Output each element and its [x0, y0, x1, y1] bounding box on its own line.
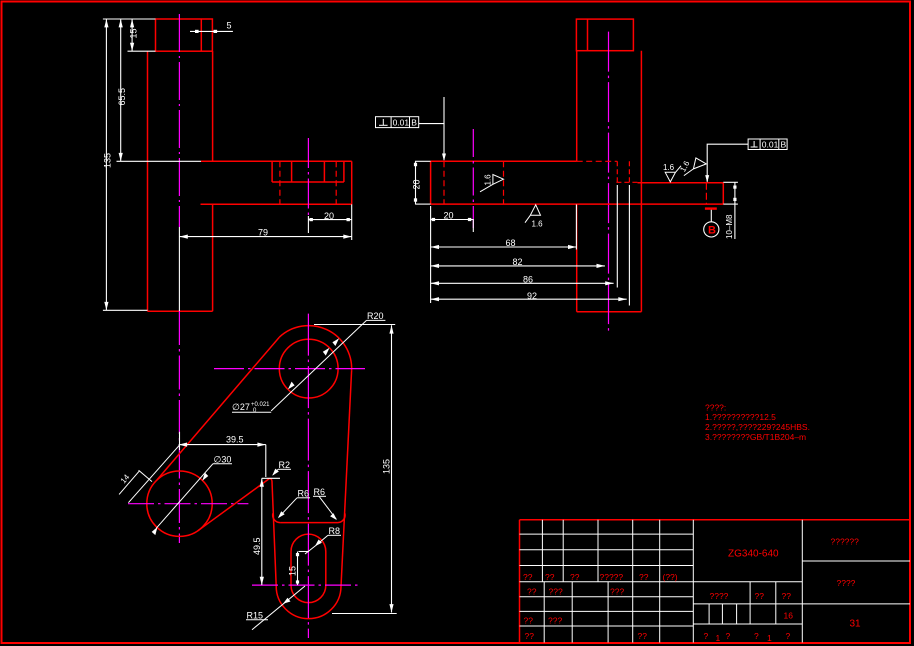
svg-text:5: 5: [227, 21, 232, 31]
svg-text:2.?????,????229?245HBS.: 2.?????,????229?245HBS.: [705, 422, 810, 432]
R8 underline: [328, 534, 341, 536]
R6 right arrow: [330, 513, 337, 520]
title right horizontals: [802, 560, 910, 562]
svg-text:0.01: 0.01: [393, 118, 410, 128]
plate hidden line 1: [443, 161, 445, 204]
dimension 15 (slot): [297, 552, 299, 586]
ext line slot right below: [628, 185, 630, 306]
bottom view vertical centerline: [307, 314, 309, 638]
bottom R15 arc: [276, 586, 341, 619]
svg-text:??: ??: [755, 591, 765, 601]
svg-text:???: ???: [610, 587, 624, 597]
hidden hole line left: [279, 161, 281, 204]
svg-text:B: B: [781, 140, 787, 150]
inner hole circle d27: [279, 339, 338, 398]
dimension 65.5: [120, 19, 122, 161]
dimension 39.5: [179, 444, 266, 446]
svg-text:?: ?: [704, 631, 709, 641]
title grid verticals upper: [541, 520, 543, 582]
ext line cap bottom: [128, 50, 156, 52]
ext line bar top right: [723, 181, 738, 183]
svg-text:3.????????GB/T1B204–m: 3.????????GB/T1B204–m: [705, 432, 806, 442]
ext line slot left below: [616, 185, 618, 288]
svg-text:0.01: 0.01: [762, 140, 779, 150]
front main centerline lower: [178, 311, 180, 543]
side body left edge lower: [576, 204, 578, 312]
surface symbol on bar top: [665, 166, 681, 182]
side cap outline: [576, 19, 633, 51]
svg-text:1: 1: [716, 633, 721, 643]
leader diagonal d27/R20: [271, 320, 366, 411]
title grid horizontals upper: [520, 533, 694, 535]
hole circle d30: [147, 471, 212, 536]
svg-text:?: ?: [786, 631, 791, 641]
arrow d30 lower left: [152, 527, 158, 535]
dimension 5 line: [190, 30, 233, 32]
R15 underline: [246, 619, 268, 621]
R8 arrow: [315, 540, 322, 547]
label R2 underline: [278, 468, 291, 470]
svg-text:ZG340-640: ZG340-640: [728, 549, 779, 560]
svg-text:??????: ??????: [831, 537, 860, 547]
ext line arm right: [351, 204, 353, 240]
svg-text:R6: R6: [314, 487, 326, 497]
svg-text:B: B: [411, 118, 417, 128]
plate bottom edge: [431, 203, 724, 205]
dimension 5 squares: [195, 30, 199, 33]
bar right edge: [722, 183, 724, 204]
svg-text:65.5: 65.5: [117, 88, 127, 106]
dimension 15: [131, 19, 133, 51]
dimension 49.5: [261, 478, 263, 585]
ext line boss centerline: [307, 216, 309, 233]
ext line arm top: [117, 160, 202, 162]
ext line 39.5 left: [179, 432, 181, 450]
right tangent edge: [341, 371, 352, 587]
svg-text:79: 79: [258, 228, 268, 238]
front body bottom edge: [148, 310, 213, 312]
dimension 20 (side vertical): [415, 161, 417, 204]
R15 leader: [252, 586, 305, 630]
svg-text:1: 1: [767, 633, 772, 643]
surface symbol on hidden line (rotated 90): [480, 175, 504, 192]
front arm top edge: [201, 160, 352, 162]
svg-text:B: B: [708, 225, 716, 237]
R2 fillet: [270, 478, 272, 481]
boss left edge: [271, 161, 273, 182]
svg-text:49.5: 49.5: [252, 537, 262, 555]
svg-text:20: 20: [412, 179, 422, 189]
svg-text:68: 68: [506, 238, 516, 248]
svg-text:????:: ????:: [705, 403, 726, 413]
svg-text:10–M8: 10–M8: [725, 214, 734, 239]
datum B circle: [704, 222, 719, 237]
svg-text:R2: R2: [279, 460, 291, 470]
front body right edge upper: [212, 51, 214, 161]
R6 left arrow: [278, 511, 285, 518]
boss bottom edge: [272, 181, 344, 183]
title block outer red edges: [520, 519, 911, 521]
svg-text:1.6: 1.6: [532, 220, 544, 229]
dimension 68: [431, 246, 577, 248]
svg-text:??: ??: [525, 631, 535, 641]
front centerline white overlay (ext line of dim 79): [178, 227, 180, 311]
arrow d30 upper right: [202, 473, 208, 481]
R15 arrow: [283, 598, 291, 604]
dimension 135 (bottom view): [391, 325, 393, 612]
inner slot obround: [291, 534, 326, 603]
dimension 82: [431, 265, 605, 267]
front cap outline: [156, 19, 213, 51]
ext line hole centerline below: [472, 219, 474, 232]
shoulder left fillet R6: [273, 513, 281, 522]
svg-text:??: ??: [782, 591, 792, 601]
svg-text:39.5: 39.5: [226, 435, 244, 445]
mini dim ext line a: [128, 445, 179, 503]
ext line plate top left: [415, 160, 431, 162]
front body right edge lower: [212, 204, 214, 311]
ext tick slot top center: [299, 551, 310, 553]
label d30 underline: [213, 463, 232, 465]
perpendicular symbol 1: [382, 119, 384, 125]
title middle horizontals: [693, 603, 802, 605]
ext line body bottom: [103, 309, 148, 311]
svg-text:20: 20: [324, 211, 334, 221]
upper tangent line: [157, 337, 279, 480]
d30 leader diagonal: [156, 464, 213, 529]
svg-text:82: 82: [513, 257, 523, 267]
ext line body left below: [575, 205, 577, 250]
svg-text:R20: R20: [367, 311, 384, 321]
svg-text:20: 20: [444, 210, 454, 220]
boss inner line right: [323, 161, 325, 182]
side body centerline: [608, 32, 610, 332]
svg-text:135: 135: [103, 153, 113, 168]
tolerance frame 1: [376, 117, 419, 128]
svg-text:????: ????: [837, 578, 856, 588]
svg-text:?????: ?????: [600, 572, 624, 582]
side body bottom edge: [577, 311, 642, 313]
svg-text:1.6: 1.6: [484, 174, 493, 186]
svg-text:15: 15: [129, 28, 139, 38]
plate top edge hidden: [577, 160, 618, 162]
shoulder right fillet R6: [337, 513, 345, 522]
svg-text:??: ??: [524, 616, 534, 626]
R8 leader: [316, 535, 328, 545]
svg-text:86: 86: [523, 275, 533, 285]
hidden slot edge left: [616, 161, 618, 182]
perpendicular symbol 2: [753, 141, 755, 147]
ext line 135 top: [314, 324, 395, 326]
svg-text:16: 16: [784, 611, 794, 621]
R2 leader: [273, 469, 278, 475]
arrow at d27 upper right: [323, 348, 330, 356]
hidden hole line right: [335, 161, 337, 204]
lower tangent line: [198, 478, 270, 530]
dimension 92: [431, 298, 627, 300]
arrow at R20 circle: [332, 338, 339, 346]
side cap inner edge: [587, 19, 589, 51]
plate left edge: [430, 161, 432, 204]
svg-text:(??): (??): [663, 572, 678, 582]
svg-text:??: ??: [639, 572, 649, 582]
boss right edge: [343, 161, 345, 182]
svg-text:14: 14: [119, 472, 132, 485]
d30 horizontal centerline: [128, 503, 248, 505]
front arm right edge: [351, 161, 353, 204]
title grid verticals lower: [543, 582, 545, 643]
svg-text:??: ??: [545, 572, 555, 582]
bar top edge: [638, 182, 724, 184]
svg-text:R6: R6: [298, 489, 310, 499]
plate hole centerline: [472, 129, 474, 228]
datum B stem: [710, 210, 712, 222]
tol frame 1 leader: [419, 124, 444, 160]
R6 left underline: [297, 497, 310, 499]
svg-text:???: ???: [549, 587, 563, 597]
ext line plate bottom left: [415, 203, 431, 205]
title middle small cells: [708, 604, 710, 624]
slot bottom horizontal centerline: [252, 584, 361, 586]
front cap inner edge line: [200, 19, 202, 51]
ext line plate left bottom: [430, 206, 432, 303]
title grid verticals full: [632, 520, 634, 643]
svg-text:∅30: ∅30: [214, 454, 232, 464]
R6 right leader: [319, 496, 336, 519]
R6 left leader: [279, 498, 297, 517]
svg-text:??: ??: [527, 587, 537, 597]
surface symbol rotated on leader: [684, 158, 706, 176]
title grid horizontals lower: [520, 596, 694, 598]
svg-text:?: ?: [754, 631, 759, 641]
tolerance frame 2: [748, 139, 787, 150]
plate hidden line 2: [503, 161, 505, 204]
R6 right underline: [313, 495, 326, 497]
front main centerline upper: [178, 14, 180, 227]
svg-text:?: ?: [726, 631, 731, 641]
boss inner line left: [291, 161, 293, 182]
shoulder line: [281, 522, 337, 524]
front arm bottom edge: [201, 203, 352, 205]
left lug edge: [272, 482, 276, 587]
svg-text:15: 15: [288, 566, 298, 576]
svg-text:???: ???: [548, 616, 562, 626]
svg-text:R15: R15: [247, 611, 264, 621]
svg-text:135: 135: [382, 459, 392, 474]
ext line 135 bottom: [332, 613, 397, 615]
hidden bar top: [616, 181, 637, 183]
dimension 10-M8 line: [734, 182, 736, 239]
svg-text:??: ??: [638, 631, 648, 641]
svg-text:????: ????: [710, 591, 729, 601]
surface symbol below plate: [525, 205, 541, 223]
svg-text:??: ??: [523, 572, 533, 582]
svg-text:∅27: ∅27: [232, 402, 250, 412]
tol frame 2 leader: [707, 144, 748, 182]
svg-text:0: 0: [253, 408, 257, 414]
front body left edge: [147, 51, 149, 311]
svg-text:1.??????????12.5: 1.??????????12.5: [705, 412, 776, 422]
datum B mark line: [705, 207, 717, 209]
R2 arrow: [272, 469, 279, 476]
top circle horizontal centerline: [214, 368, 365, 370]
dimension 20 (side horizontal): [431, 219, 474, 221]
ext line 49.5 top: [262, 477, 280, 479]
hidden slot edge right: [628, 161, 630, 182]
bar hole centerline (red): [705, 183, 707, 204]
dimension 79: [179, 236, 351, 238]
boss centerline: [307, 138, 309, 216]
mini dim line: [119, 471, 139, 495]
svg-text:??: ??: [570, 572, 580, 582]
ext line 39.5 right: [265, 445, 267, 477]
outer R20 arc: [279, 326, 351, 371]
mini dim ext line b: [139, 470, 152, 481]
svg-text:R8: R8: [329, 526, 341, 536]
ext line top (y=19): [103, 18, 156, 20]
label R20 underline: [367, 319, 386, 321]
arrow at d27 lower left: [288, 382, 295, 390]
svg-text:92: 92: [527, 291, 537, 301]
ext line bar bottom right: [723, 203, 738, 205]
R8 leader tail into slot: [305, 546, 316, 555]
svg-text:31: 31: [850, 619, 862, 630]
dimension 135 (front): [105, 19, 107, 310]
dimension 20 (front arm): [308, 219, 351, 221]
label d27 underline: [232, 411, 271, 413]
side body right edge: [640, 51, 642, 312]
side body left edge upper: [576, 51, 578, 162]
plate top edge solid: [431, 160, 577, 162]
dimension 86: [431, 282, 614, 284]
svg-text:1.6: 1.6: [663, 163, 675, 172]
